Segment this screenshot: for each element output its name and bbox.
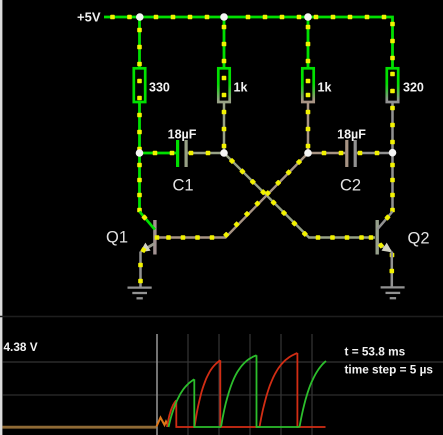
svg-text:Q2: Q2 (408, 230, 430, 248)
wire cross to Q1 base (158, 153, 309, 240)
capacitor C1 (178, 140, 187, 167)
transistor Q2 (369, 212, 395, 258)
node rail-R3 (304, 13, 312, 21)
label Q2 (408, 230, 430, 248)
scope horizontal gridlines (2, 362, 443, 395)
value 18uF (C1) (168, 127, 197, 141)
ground GND1 (128, 288, 152, 299)
svg-text:4.38 V: 4.38 V (4, 340, 38, 354)
wire C2 right lead (357, 151, 393, 156)
resistor R2 (218, 68, 229, 102)
scope start transient (orange) (157, 418, 169, 427)
wire Q1 collector (137, 153, 142, 212)
svg-text:18µF: 18µF (337, 127, 366, 141)
resistor R3 (302, 68, 313, 102)
scope time step readout (345, 362, 434, 376)
node rail-R2 (220, 13, 228, 21)
svg-text:1k: 1k (234, 80, 248, 94)
ground GND2 (381, 287, 405, 298)
node rail-R1 (136, 13, 144, 21)
wire R1 top lead (137, 17, 142, 67)
label C1 (173, 176, 194, 194)
value 330 (149, 80, 170, 94)
scope pre-start baseline (3, 426, 157, 429)
wire C1 right lead (188, 151, 224, 156)
svg-text:C2: C2 (340, 176, 361, 194)
wire C2 left lead (308, 151, 345, 156)
label C2 (340, 176, 361, 194)
wire cross to Q2 base (224, 153, 375, 240)
value 320 (403, 80, 424, 94)
window left border (0, 0, 2, 435)
node C2-left (304, 149, 312, 157)
wire C1 left lead (140, 151, 177, 156)
wire Q2 collector (390, 153, 395, 213)
wire R3 top lead (306, 17, 311, 67)
svg-text:330: 330 (149, 80, 170, 94)
resistor R1 (134, 68, 145, 102)
scope red trace (167, 353, 326, 427)
node C1-left (136, 149, 144, 157)
svg-text:t = 53.8 ms: t = 53.8 ms (345, 345, 406, 359)
value 1k (R3) (318, 80, 332, 94)
wire +5V rail (104, 15, 395, 67)
transistor Q1 (140, 212, 160, 255)
wire Q2 emitter (390, 252, 395, 288)
wire R2 bottom lead (222, 103, 227, 153)
svg-text:C1: C1 (173, 176, 194, 194)
wire Q1 emitter (138, 252, 143, 288)
svg-text:time step = 5 µs: time step = 5 µs (345, 362, 434, 376)
resistor R4 (387, 68, 398, 102)
node C2-right (389, 149, 397, 157)
svg-text:320: 320 (403, 80, 424, 94)
svg-text:+5V: +5V (77, 10, 101, 25)
wire R3 bottom lead (306, 103, 311, 153)
svg-text:18µF: 18µF (168, 127, 197, 141)
value 18uF (C2) (337, 127, 366, 141)
node C1-right (220, 149, 228, 157)
scope panel divider (0, 316, 443, 318)
capacitor C2 (347, 140, 355, 167)
scope time readout (345, 345, 406, 359)
scope green trace (169, 355, 327, 427)
label Q1 (106, 229, 128, 247)
+5V supply label (77, 10, 101, 25)
value 1k (R2) (234, 80, 248, 94)
scope voltage readout 4.38 V (4, 340, 38, 354)
svg-text:1k: 1k (318, 80, 332, 94)
wire R1 bottom lead (137, 103, 142, 153)
wire R4 bottom lead (390, 103, 395, 153)
scope vertical gridlines (157, 334, 312, 435)
wire R2 top lead (222, 17, 227, 67)
svg-text:Q1: Q1 (106, 229, 128, 247)
